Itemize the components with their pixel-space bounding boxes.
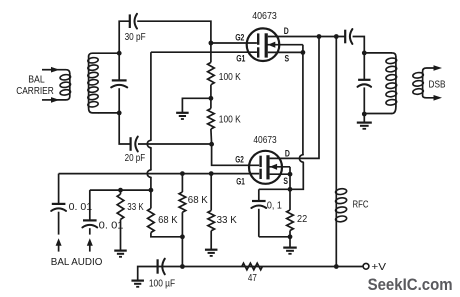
svg-text:100 K: 100 K [219, 114, 241, 126]
resistor R 22 [289, 189, 291, 210]
ground: 100K midpoint [176, 112, 189, 114]
svg-text:D: D [285, 148, 290, 159]
svg-text:G2: G2 [235, 32, 244, 43]
svg-text:G1: G1 [236, 177, 245, 188]
svg-text:CARRIER: CARRIER [16, 85, 54, 97]
terminal: +V [363, 263, 369, 269]
resistor R 100K (lower) [210, 98, 212, 108]
transformer T2 secondary coil (DSB) [422, 71, 424, 95]
capacitor C 30 pF [129, 14, 131, 28]
wire: upper source + substrate to column [268, 51, 303, 53]
node: upper source junction [301, 50, 306, 55]
node: 33K top junction [209, 171, 214, 176]
crossover hop over audio rail [147, 170, 151, 177]
capacitor C 0.01 (right) [89, 190, 91, 220]
node: 68K-branch / rail junction [180, 264, 185, 269]
wire: carrier input bottom lead [42, 99, 52, 101]
node: drain rail / RFC riser [334, 34, 339, 39]
resistor R 68K (left) [150, 190, 152, 208]
transformer T2 primary coil [395, 57, 397, 107]
resistor R 100K (upper) [210, 43, 212, 62]
svg-text:33 K: 33 K [217, 214, 237, 226]
node: 68K bottoms junction [180, 234, 185, 239]
svg-text:DSB: DSB [429, 78, 446, 90]
node: source-network ground junction [288, 234, 293, 239]
node: output tank top junction [362, 51, 367, 56]
wire: lower G2 drop and G2 lead [212, 144, 260, 165]
svg-text:40673: 40673 [253, 134, 276, 146]
wire: 100uF to ground [138, 267, 158, 281]
wire: stem to ground [289, 237, 291, 248]
wire: upper drain rail [268, 36, 345, 38]
ground: 33K left [114, 250, 127, 252]
wire: output tank cap lower stem [363, 87, 365, 114]
transformer T1 primary coil (BAL CARRIER side) [69, 74, 71, 97]
svg-text:20 pF: 20 pF [125, 152, 146, 164]
crossover hop over lower drain wire [299, 155, 303, 162]
ground: source network [283, 247, 297, 249]
arrow: DSB output top [434, 65, 443, 71]
transformer T1 secondary coil [88, 57, 90, 108]
wire: 30pF top rail left lead + drop to carrier tank top [119, 21, 130, 53]
node: tank-top junction [117, 51, 122, 56]
capacitor C 0.01 (left) [58, 174, 60, 204]
node: drain rail / lower-drain riser [317, 34, 322, 39]
wire: tank top rail [364, 52, 392, 54]
wire: carrier input top lead [42, 69, 52, 71]
wire: output tank cap upper stem [363, 53, 365, 80]
svg-text:68 K: 68 K [188, 194, 208, 206]
transistor Q2 40673 (lower) [249, 151, 282, 184]
svg-text:22: 22 [297, 213, 307, 225]
arrow: carrier bottom input [51, 97, 60, 103]
node: RFC / rail junction [334, 264, 339, 269]
ground: output tank [357, 121, 372, 123]
wire: 68K bottoms to +V rail [181, 237, 183, 267]
node: 33K-left top junction [118, 188, 123, 193]
svg-text:100 K: 100 K [219, 71, 241, 83]
wire: source to common source node [289, 174, 291, 189]
node: 68K top junction [180, 171, 185, 176]
wire: upper-G1 column lower segment [150, 177, 152, 190]
capacitor: output coupling cap (unlabeled) [344, 30, 346, 44]
node: lower source junction [288, 172, 293, 177]
audio rail (lower G1 line) [59, 173, 260, 175]
arrow: BAL AUDIO input 2 [87, 238, 93, 246]
wire: tank ground stem [363, 114, 365, 122]
node: 100K midpoint junction [209, 96, 214, 101]
wire: 0.1 bottom to 22 bottom [259, 236, 290, 238]
wire: tank cap lower stem [118, 88, 120, 113]
svg-text:BAL: BAL [28, 73, 45, 85]
svg-text:100 µF: 100 µF [149, 278, 175, 290]
arrow: DSB output bottom [434, 95, 443, 101]
svg-text:33 K: 33 K [127, 201, 143, 213]
svg-text:RFC: RFC [353, 199, 369, 211]
svg-text:G1: G1 [236, 54, 246, 65]
node: tank-bottom junction [117, 111, 122, 116]
wire: tank bottom rail [364, 113, 392, 115]
inductor RFC [335, 37, 337, 188]
wire: upper G2 lead [211, 42, 257, 44]
capacitor C 0.1 [258, 189, 260, 201]
wire: source column lower segment + bend to source node [290, 162, 303, 189]
capacitor C 20 pF [130, 137, 132, 151]
resistor R 33K (left) [120, 190, 122, 194]
capacitor: output tank cap (unlabeled) [358, 79, 370, 81]
capacitor C 100uF [157, 259, 159, 273]
wire: tank cap upper stem [118, 53, 120, 80]
svg-text:D: D [284, 26, 289, 37]
svg-text:68 K: 68 K [158, 214, 177, 226]
wire: upper-G1 column upper segment [150, 52, 152, 140]
ground: 100uF [131, 280, 144, 282]
wire: 30pF right lead to upper G2 drop [137, 21, 211, 43]
wire: coupling cap to tank top [353, 37, 365, 53]
wire: +V rail [158, 266, 363, 268]
svg-text:BAL AUDIO: BAL AUDIO [51, 256, 103, 268]
svg-text:40673: 40673 [252, 10, 277, 22]
wire: source column upper segment [302, 52, 304, 154]
wire: upper-G1 column mid segment [150, 148, 152, 170]
svg-text:47: 47 [248, 272, 257, 284]
transistor Q1 40673 (upper) [247, 28, 280, 61]
wire: lower substrate bend + source wire [289, 167, 291, 174]
node: upper G2 junction [209, 41, 214, 46]
wire: source node to 0.1 branch [259, 188, 290, 190]
svg-text:30 pF: 30 pF [125, 31, 146, 43]
node: G1-column / audio-node junction [149, 188, 154, 193]
wire: upper G1 lead [151, 51, 257, 53]
svg-text:S: S [285, 53, 290, 64]
wire: 20pF to lower G2 drop (crosses G1 column) [138, 143, 212, 145]
node: common source node [288, 187, 293, 192]
svg-text:0. 01: 0. 01 [69, 201, 93, 213]
svg-text:SeekIC.com: SeekIC.com [368, 276, 453, 294]
wire: carrier tank top rail [99, 52, 120, 54]
wire: lower-drain riser and drain wire [270, 37, 319, 159]
node: 100K bottom / 20pF / G2-drop junction [209, 142, 214, 147]
arrow: carrier top input [51, 67, 60, 73]
wire: midpoint to ground [182, 98, 211, 112]
crossover hop over 20pF line [147, 140, 151, 147]
wire: 20pF branch from tank bottom [119, 113, 130, 144]
wire: carrier tank bottom rail [99, 112, 120, 114]
node: output tank bottom junction [362, 112, 367, 117]
svg-text:S: S [283, 176, 288, 187]
wire: audio node line [90, 189, 151, 191]
arrow: BAL AUDIO input 1 [56, 238, 62, 246]
svg-text:0, 1: 0, 1 [267, 200, 282, 212]
svg-text:+V: +V [371, 261, 386, 273]
ground: 33K right [205, 249, 218, 251]
resistor R 68K (right) [181, 174, 183, 192]
resistor R 47 [242, 263, 263, 270]
resistor R 33K (right) [210, 174, 212, 211]
svg-text:G2: G2 [235, 154, 244, 165]
capacitor: carrier tank tuning cap (unlabeled) [112, 79, 127, 81]
